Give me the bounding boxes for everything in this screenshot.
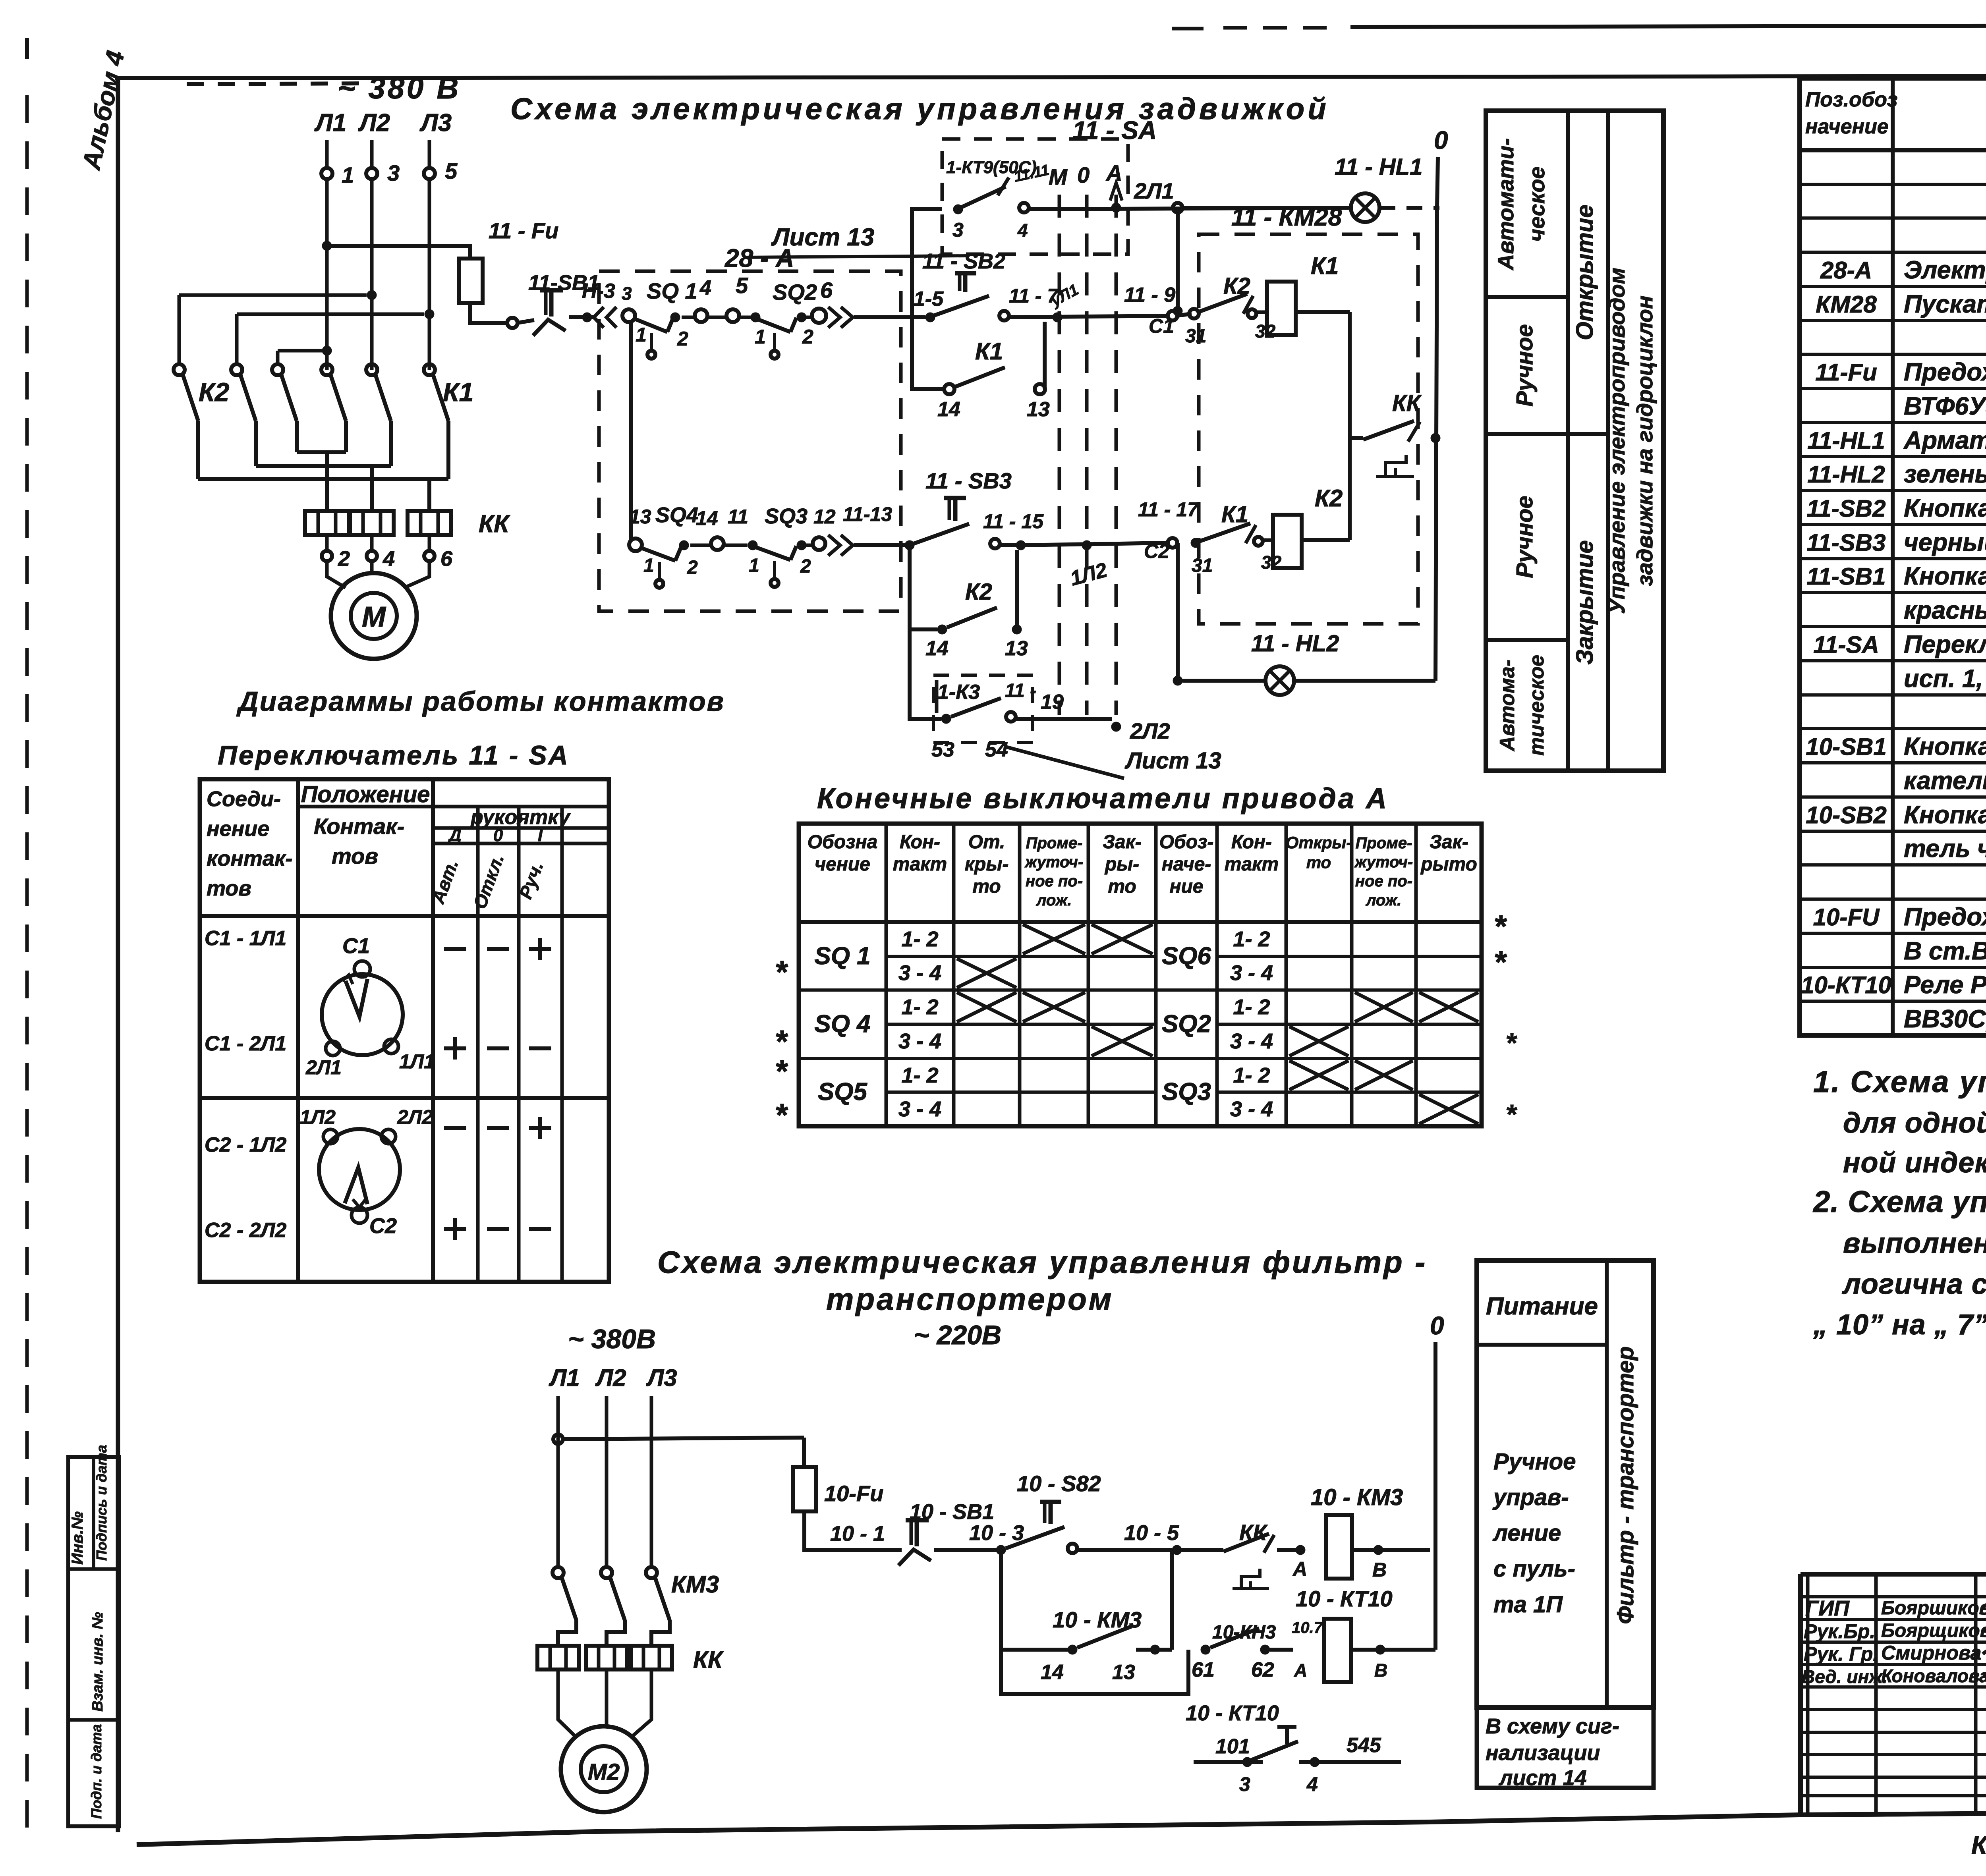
svg-text:10 - КТ10: 10 - КТ10	[1296, 1586, 1393, 1611]
svg-text:SQ4: SQ4	[655, 503, 698, 527]
dashed enclosure 28-A	[599, 244, 901, 611]
svg-text:54: 54	[985, 738, 1008, 761]
svg-text:2Л2: 2Л2	[397, 1106, 433, 1128]
svg-text:SQ3: SQ3	[1162, 1078, 1211, 1106]
svg-text:4: 4	[1306, 1773, 1318, 1795]
interlock contact 10-KT10 (separate)	[1186, 1701, 1401, 1795]
svg-text:Л2: Л2	[358, 109, 390, 137]
svg-text:В ст.ВТФ6У3, ТУ16-522, 037 - 7: В ст.ВТФ6У3, ТУ16-522, 037 - 75	[1904, 937, 1986, 965]
svg-text:3: 3	[1239, 1773, 1250, 1795]
svg-text:Предохранитель ППТ-10У3, пл.В: Предохранитель ППТ-10У3, пл.Вст.	[1904, 358, 1986, 386]
contactor coil K1	[1256, 253, 1350, 335]
svg-text:Конечные выключатели привода: Конечные выключатели привода А	[817, 783, 1389, 814]
svg-text:М: М	[362, 601, 386, 633]
svg-text:Рук.Бр.: Рук.Бр.	[1804, 1620, 1875, 1642]
limit switch contact 11	[690, 506, 748, 550]
svg-text:61: 61	[1192, 1658, 1215, 1681]
svg-text:13: 13	[1027, 398, 1050, 421]
svg-text:~ 380 В: ~ 380 В	[338, 71, 461, 105]
svg-text:11 - НL1: 11 - НL1	[1335, 154, 1422, 180]
svg-text:62: 62	[1251, 1658, 1274, 1681]
svg-text:Схема электрическая управлен: Схема электрическая управления задвижкой	[510, 92, 1329, 126]
selector dashed column A with arrow	[1105, 160, 1122, 715]
svg-text:Схема электрическая управлен: Схема электрическая управления фильтр -	[657, 1245, 1427, 1280]
svg-text:С2 - 2Л2: С2 - 2Л2	[205, 1219, 286, 1242]
svg-text:Ручное: Ручное	[1512, 496, 1538, 578]
svg-text:К1: К1	[1311, 253, 1339, 279]
svg-text:31: 31	[1185, 326, 1206, 347]
limit switch table X marks	[957, 924, 1478, 1124]
svg-text:1-5: 1-5	[914, 288, 944, 311]
svg-text:А: А	[1105, 160, 1122, 185]
zero bus vertical (valve circuit)	[1435, 208, 1437, 681]
svg-text:SQ 4: SQ 4	[814, 1010, 870, 1038]
svg-text:10-FU: 10-FU	[1813, 904, 1880, 930]
svg-text:КК: КК	[693, 1646, 724, 1673]
subtitle Переключатель 11-SA	[218, 740, 570, 770]
svg-text:31: 31	[1192, 555, 1213, 576]
svg-text:11-SA: 11-SA	[1813, 631, 1879, 658]
svg-text:тическое: тическое	[1525, 655, 1548, 756]
svg-text:53: 53	[931, 738, 954, 761]
svg-text:Ручное: Ручное	[1493, 1449, 1576, 1475]
fuse 11-Fu	[459, 218, 558, 303]
svg-text:Переключатель 11 - SА: Переключатель 11 - SА	[218, 740, 570, 770]
svg-text:Ручное: Ручное	[1512, 324, 1538, 406]
svg-text:5: 5	[736, 273, 748, 298]
contactor K2 main contacts	[174, 364, 297, 479]
svg-text:А: А	[1292, 1558, 1307, 1580]
svg-text:Подп. и дата: Подп. и дата	[88, 1724, 104, 1819]
motor M2	[561, 1726, 647, 1812]
node 2L2	[1072, 718, 1170, 743]
svg-text:1- 2: 1- 2	[901, 995, 938, 1019]
svg-text:11-HL2: 11-HL2	[1807, 461, 1885, 488]
svg-text:Положение: Положение	[301, 782, 430, 807]
svg-text:Альбом 4: Альбом 4	[77, 48, 130, 173]
limit switch SQ2	[739, 278, 833, 359]
svg-text:нализации: нализации	[1486, 1741, 1600, 1765]
svg-text:2. Схема управления фильтр -: 2. Схема управления фильтр - транспортер…	[1812, 1185, 1986, 1219]
svg-text:14: 14	[1041, 1661, 1064, 1684]
svg-text:лож.: лож.	[1036, 892, 1072, 909]
svg-text:14: 14	[925, 637, 949, 660]
svg-text:Смирнова: Смирнова	[1881, 1642, 1981, 1664]
svg-text:КК: КК	[1239, 1520, 1268, 1545]
svg-text:Арматура АСЛ 11У2, ~220В, цвет: Арматура АСЛ 11У2, ~220В, цвет	[1903, 427, 1986, 454]
selector dashed column O	[1077, 162, 1090, 715]
reference Лист 13 (lower)	[1005, 747, 1221, 778]
svg-text:исп. 1, ТУ16-642, 051 - 86: исп. 1, ТУ16-642, 051 - 86	[1904, 665, 1986, 693]
svg-text:Автома-: Автома-	[1496, 660, 1519, 752]
label C1	[1149, 315, 1174, 337]
svg-text:КК: КК	[1392, 390, 1422, 416]
svg-text:С1 - 2Л1: С1 - 2Л1	[205, 1032, 286, 1055]
contact 1-KT9 on rail	[952, 162, 1051, 241]
svg-text:Л2: Л2	[595, 1365, 626, 1391]
svg-text:Л3: Л3	[419, 109, 452, 137]
svg-text:10-КН3: 10-КН3	[1212, 1622, 1276, 1643]
timer contact 1-K3 dashed box	[933, 675, 1033, 743]
svg-text:В: В	[1374, 1660, 1387, 1681]
svg-text:SQ 1: SQ 1	[814, 942, 870, 970]
terminal numbers 1 3 5	[342, 158, 458, 187]
svg-text:Реле РКВ11-33-112-УХЛ4,~220В: Реле РКВ11-33-112-УХЛ4,~220В	[1904, 971, 1986, 999]
interlock contact K2 (NC)	[1185, 273, 1276, 347]
svg-text:3 - 4: 3 - 4	[1230, 1097, 1273, 1121]
svg-text:С1: С1	[342, 934, 370, 958]
svg-text:Питание: Питание	[1486, 1293, 1598, 1320]
button 11-SB3	[914, 468, 1044, 550]
svg-text:0: 0	[1077, 162, 1090, 187]
svg-text:задвижки на гидроциклон: задвижки на гидроциклон	[1632, 295, 1657, 586]
svg-text:*: *	[1493, 944, 1507, 980]
svg-text:Кнопка КЕО 11У3, исп.4, толкат: Кнопка КЕО 11У3, исп.4, толкатель	[1904, 494, 1986, 522]
svg-text:ной индекса„ 28” на „ 29” и: ной индекса„ 28” на „ 29” и „ 11” на „ 1…	[1843, 1147, 1986, 1179]
svg-text:11-SB3: 11-SB3	[1807, 529, 1886, 556]
svg-text:ние: ние	[1169, 876, 1203, 897]
svg-text:11 - SВ3: 11 - SВ3	[925, 468, 1012, 493]
phase line L1	[321, 140, 332, 370]
main title: Схема электрическая управления задвижкой	[510, 92, 1329, 126]
svg-text:С2 - 1Л2: С2 - 1Л2	[205, 1133, 286, 1156]
svg-text:Закрытие: Закрытие	[1571, 540, 1598, 665]
junction 1L2 label	[1068, 540, 1109, 591]
svg-text:то: то	[972, 876, 1001, 897]
svg-text:14: 14	[937, 398, 960, 421]
phase labels L1 L2 L3 (top)	[314, 109, 452, 137]
svg-text:КК: КК	[479, 510, 510, 538]
wire fuse to SB1 rail	[804, 1511, 902, 1550]
svg-text:1: 1	[749, 555, 759, 576]
wires to motor M2	[558, 1669, 651, 1736]
svg-text:тов: тов	[332, 843, 378, 869]
svg-text:0: 0	[493, 826, 503, 845]
svg-text:„ 10” на „ 7”.: „ 10” на „ 7”.	[1813, 1309, 1986, 1341]
svg-text:19: 19	[1041, 691, 1064, 714]
lower loop to 61	[1001, 1650, 1188, 1694]
svg-text:6: 6	[820, 278, 833, 303]
svg-text:SQ6: SQ6	[1162, 942, 1211, 970]
svg-text:К2: К2	[1315, 485, 1343, 511]
button 11-SB2	[922, 249, 1059, 320]
svg-text:3: 3	[387, 160, 400, 185]
svg-text:11-13: 11-13	[843, 503, 892, 525]
svg-text:~ 380В: ~ 380В	[568, 1324, 656, 1354]
contactor coil K2	[1263, 485, 1350, 568]
exit chevrons close chain	[828, 503, 906, 556]
svg-text:11 - НL2: 11 - НL2	[1251, 631, 1339, 656]
svg-text:К2: К2	[965, 579, 992, 605]
svg-text:28-А: 28-А	[1820, 257, 1872, 284]
title Диаграммы работы контактов	[236, 686, 725, 717]
svg-text:SQ2: SQ2	[773, 280, 817, 305]
parts list table grid	[1800, 78, 1986, 1035]
svg-text:Фильтр - транспортер: Фильтр - транспортер	[1613, 1346, 1638, 1624]
wire SB3 to C2	[1021, 538, 1177, 548]
svg-text:6: 6	[440, 547, 453, 571]
svg-text:рыто: рыто	[1420, 854, 1477, 875]
label ~380V (top)	[338, 71, 461, 105]
svg-text:ческое: ческое	[1524, 166, 1549, 241]
svg-text:13: 13	[1112, 1661, 1135, 1684]
svg-text:кры-: кры-	[965, 854, 1009, 875]
svg-text:КМ28: КМ28	[1816, 291, 1877, 318]
svg-text:1Л2: 1Л2	[300, 1106, 336, 1128]
svg-text:Д: Д	[447, 826, 462, 845]
button 11-SB1	[528, 271, 599, 336]
reference box В схему сигнализации	[1477, 1708, 1654, 1790]
svg-text:1: 1	[643, 555, 654, 576]
self-hold contact K2	[910, 545, 1028, 660]
lamp 11-HL2	[1182, 631, 1435, 695]
power feed table (Питание)	[1477, 1260, 1654, 1708]
svg-text:2: 2	[687, 557, 698, 578]
svg-text:101: 101	[1215, 1735, 1250, 1758]
svg-text:*: *	[775, 1097, 788, 1133]
asterisk marks	[775, 909, 1517, 1133]
svg-text:10 - 3: 10 - 3	[969, 1521, 1024, 1545]
svg-text:нение: нение	[207, 817, 269, 841]
title Конечные выключатели привода А	[817, 783, 1389, 814]
svg-text:наче-: наче-	[1162, 854, 1211, 875]
frame top border	[115, 75, 1986, 84]
svg-text:ГИП: ГИП	[1805, 1596, 1850, 1620]
contactor K1 main contacts	[321, 364, 473, 479]
limit switch SQ1	[622, 278, 697, 359]
button 10-SB1	[898, 1500, 994, 1565]
svg-text:контак-: контак-	[207, 847, 292, 870]
wire K2 crossover a	[179, 290, 377, 364]
svg-text:10.7: 10.7	[1292, 1619, 1323, 1637]
wire K2/K1 bottom bus c	[198, 479, 448, 511]
svg-text:10-Fu: 10-Fu	[824, 1481, 883, 1506]
phase labels L1 L2 L3 (bottom)	[549, 1365, 677, 1391]
svg-text:ВТФ6У3, ТУ16-521, 037 - 75: ВТФ6У3, ТУ16-521, 037 - 75	[1904, 392, 1986, 420]
limit switch table headers	[808, 832, 1477, 909]
outer left dashed margin line	[25, 38, 29, 1839]
switch table row labels	[205, 927, 286, 1242]
svg-text:Подпись и дата: Подпись и дата	[93, 1445, 110, 1561]
svg-text:3: 3	[622, 283, 632, 304]
svg-text:Откл.: Откл.	[469, 851, 508, 912]
svg-text:такт: такт	[893, 854, 947, 875]
svg-text:выполнена для одного, для: выполнена для одного, для другого она ан…	[1843, 1228, 1986, 1259]
svg-text:11 - КМ28: 11 - КМ28	[1231, 204, 1342, 231]
svg-text:Л1: Л1	[549, 1365, 580, 1391]
svg-text:3 - 4: 3 - 4	[898, 961, 941, 985]
wire L1 to fuse 11-Fu	[322, 241, 470, 259]
zero bus (bottom schematic)	[1430, 1311, 1444, 1650]
lamp 11-HL1	[1182, 154, 1439, 222]
svg-text:1- 2: 1- 2	[901, 1063, 938, 1087]
svg-text:Зак-: Зак-	[1103, 832, 1142, 853]
svg-text:3 - 4: 3 - 4	[1230, 961, 1273, 985]
svg-text:ВВ30С, ТУ16-647. 036 - 86: ВВ30С, ТУ16-647. 036 - 86	[1904, 1005, 1986, 1033]
svg-text:2: 2	[800, 556, 811, 577]
svg-text:SQ2: SQ2	[1162, 1010, 1211, 1038]
svg-text:SQ5: SQ5	[818, 1078, 868, 1106]
svg-text:КМ3: КМ3	[671, 1571, 719, 1598]
self-hold contact K1	[912, 317, 1050, 421]
outer top edge line	[1172, 25, 1986, 29]
svg-text:начение: начение	[1805, 115, 1889, 138]
switch table headers	[207, 782, 571, 911]
limit switch table grid	[799, 824, 1482, 1126]
svg-text:Диаграммы работы контактов: Диаграммы работы контактов	[236, 686, 725, 717]
svg-text:13: 13	[1005, 637, 1028, 660]
svg-text:Боярщиков: Боярщиков	[1881, 1620, 1986, 1641]
svg-text:Проме-: Проме-	[1026, 834, 1083, 852]
svg-text:то: то	[1108, 876, 1136, 897]
contactor coil 10-KM3	[1311, 1484, 1430, 1581]
svg-text:SQ 1: SQ 1	[647, 278, 697, 303]
interlock contact K1 (NC) close circuit	[1191, 502, 1282, 576]
svg-text:1- 2: 1- 2	[1233, 1063, 1270, 1087]
relay coil 10-KT10	[1296, 1586, 1435, 1682]
separation chevrons (enclosure entry)	[594, 307, 616, 328]
wire fuse to 11-1	[470, 303, 518, 328]
contact 1-K3 row	[910, 545, 1072, 761]
button 10-SB2	[1006, 1471, 1179, 1553]
wire K2/K1 bottom bus a	[297, 452, 346, 511]
notes text	[1812, 1065, 1986, 1341]
svg-text:В: В	[1372, 1559, 1387, 1581]
svg-text:ное по-: ное по-	[1355, 872, 1412, 890]
svg-text:тель черный, ТУ16-642. 015 -: тель черный, ТУ16-642. 015 - 84	[1904, 835, 1986, 863]
svg-text:2: 2	[677, 328, 688, 350]
svg-text:Л1: Л1	[314, 109, 346, 137]
svg-text:1. Схема управления задвижко: 1. Схема управления задвижкой выполнена	[1813, 1065, 1986, 1099]
svg-text:Кон-: Кон-	[1231, 832, 1272, 853]
svg-text:Электропривод типа А: Электропривод типа А	[1904, 256, 1986, 284]
terminal A (KM3)	[1292, 1545, 1307, 1580]
svg-text:логична с заменой индекса„: логична с заменой индекса„ 3” на „ 5” и	[1842, 1268, 1986, 1300]
self-hold loop 10-KM3	[1001, 1550, 1172, 1684]
footer Копировал	[1971, 1831, 1986, 1859]
svg-text:3 - 4: 3 - 4	[1230, 1029, 1273, 1053]
svg-text:тов: тов	[207, 876, 251, 900]
svg-text:Открытие: Открытие	[1571, 205, 1598, 340]
svg-text:Кон-: Кон-	[900, 832, 940, 853]
phase line L3	[424, 140, 435, 370]
svg-text:10 - S82: 10 - S82	[1017, 1471, 1101, 1496]
svg-text:1- 2: 1- 2	[901, 927, 938, 951]
time relay 1-KT9 dashed box	[942, 139, 1128, 254]
svg-text:рукоятку: рукоятку	[470, 806, 571, 829]
title block signature texts	[1802, 1596, 1986, 1687]
svg-text:Проме-: Проме-	[1356, 834, 1412, 852]
svg-text:Соеди-: Соеди-	[207, 787, 281, 811]
thermal contact KK (NC, control)	[1350, 390, 1440, 477]
svg-text:Переключатель ПП2-16/н2У3б,: Переключатель ПП2-16/н2У3б,	[1904, 631, 1986, 658]
svg-text:13: 13	[629, 506, 651, 528]
wire KT9 to lamp junction	[1030, 208, 1351, 209]
svg-text:Предохранитель ППТ-10У3, пл.: Предохранитель ППТ-10У3, пл.	[1904, 903, 1986, 931]
svg-text:3 - 4: 3 - 4	[898, 1097, 941, 1121]
contact 10-KM3 (timer branch)	[1192, 1619, 1323, 1681]
svg-text:К2: К2	[199, 377, 230, 407]
svg-text:*: *	[775, 1054, 788, 1089]
parts list table header	[1805, 88, 1986, 138]
junction uL1 on M column	[1047, 281, 1082, 322]
power feed table rotated label	[1613, 1346, 1638, 1624]
svg-text:11-SB1: 11-SB1	[1807, 563, 1886, 590]
svg-text:*: *	[775, 954, 788, 990]
title block signature grid	[1801, 1574, 1986, 1814]
selector 11-SA label	[1072, 116, 1157, 145]
exit chevrons right of SQ2	[828, 307, 912, 328]
svg-text:Пускатель магнитный: Пускатель магнитный	[1904, 290, 1986, 318]
svg-text:3 - 4: 3 - 4	[898, 1029, 941, 1053]
svg-text:*: *	[1505, 1099, 1517, 1130]
svg-text:С1: С1	[1149, 315, 1174, 337]
wire riser inside 28-A (to close chain)	[629, 322, 633, 540]
svg-text:2Л1: 2Л1	[1134, 178, 1174, 203]
svg-text:С1 - 1Л1: С1 - 1Л1	[205, 927, 286, 950]
limit switch SQ3	[748, 504, 836, 587]
svg-text:Лист 13: Лист 13	[1124, 748, 1221, 774]
svg-text:1- 2: 1- 2	[1233, 927, 1270, 951]
svg-text:транспортером: транспортером	[826, 1282, 1114, 1316]
switch diagram circle C1	[305, 934, 435, 1079]
svg-text:4: 4	[1017, 220, 1028, 241]
svg-text:Автомати-: Автомати-	[1493, 138, 1518, 271]
fuse 10-Fu	[793, 1467, 883, 1511]
svg-text:2: 2	[802, 326, 813, 348]
wire rail 11-SB2 row	[901, 315, 925, 319]
svg-text:12: 12	[813, 506, 836, 528]
svg-text:лист 14: лист 14	[1498, 1766, 1587, 1790]
svg-text:11 - Fu: 11 - Fu	[489, 218, 558, 243]
wire C1 to contact K2	[1177, 314, 1192, 316]
svg-text:I: I	[538, 826, 543, 845]
svg-text:Л3: Л3	[646, 1365, 677, 1391]
label 11-9	[1124, 284, 1175, 307]
switch 11-SA table grid	[200, 779, 609, 1282]
svg-text:С2: С2	[369, 1214, 397, 1238]
svg-text:Коновалова: Коновалова	[1881, 1666, 1986, 1686]
svg-text:10 - КМ3: 10 - КМ3	[1053, 1607, 1142, 1632]
svg-text:11-SB2: 11-SB2	[1807, 495, 1886, 522]
svg-text:1Л2: 1Л2	[1068, 558, 1109, 590]
svg-text:черный, ТУ16-642. 015 - 84: черный, ТУ16-642. 015 - 84	[1904, 529, 1986, 556]
svg-text:то: то	[1306, 853, 1331, 872]
limit switch contact 4-5	[682, 273, 748, 322]
svg-text:10-SB2: 10-SB2	[1806, 802, 1886, 828]
switch diagram circle C2	[300, 1106, 433, 1238]
svg-text:10 - КТ10: 10 - КТ10	[1186, 1701, 1279, 1725]
svg-text:1-К3: 1-К3	[937, 681, 980, 704]
svg-text:2Л2: 2Л2	[1130, 718, 1170, 743]
svg-text:Взам. инв. №: Взам. инв. №	[89, 1612, 106, 1712]
svg-text:К2: К2	[1223, 273, 1250, 299]
svg-text:2Л1: 2Л1	[305, 1056, 342, 1079]
svg-text:Контак-: Контак-	[314, 814, 404, 839]
svg-text:*: *	[1505, 1027, 1517, 1058]
svg-text:~ 220В: ~ 220В	[914, 1320, 1001, 1350]
wire SB2 to C1	[1009, 311, 1177, 320]
svg-text:ры-: ры-	[1104, 854, 1139, 875]
svg-text:Кнопка КЕ 011У3, исп 5, тол-: Кнопка КЕ 011У3, исп 5, тол-	[1904, 733, 1986, 760]
wire K2 crossover b	[237, 309, 434, 364]
switch table plus minus marks	[444, 938, 551, 1240]
title Схема электрическая управления фильтр-транспортером	[657, 1245, 1427, 1350]
svg-text:зеленый, ТУ16-535. 681 - 76: зеленый, ТУ16-535. 681 - 76	[1904, 460, 1986, 488]
svg-text:К1: К1	[1221, 502, 1248, 527]
contactor KM3 main contacts (bottom)	[553, 1567, 719, 1646]
svg-text:10-SB1: 10-SB1	[1806, 733, 1886, 760]
